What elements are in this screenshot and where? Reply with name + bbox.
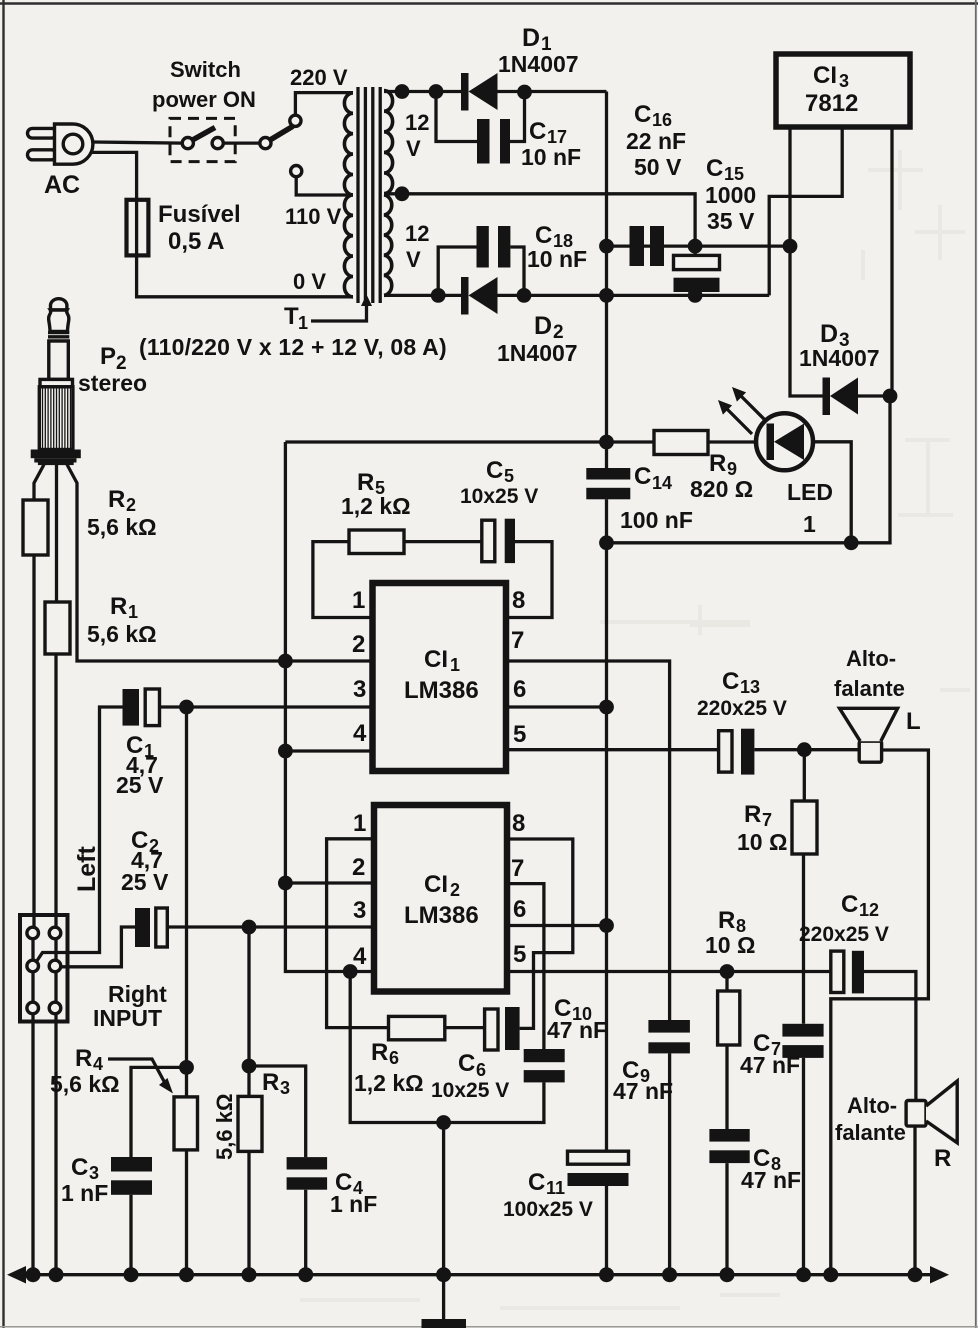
svg-text:C: C <box>528 1169 545 1196</box>
wire CI1 pin6 <box>506 705 607 708</box>
wire plug to switch <box>92 142 182 143</box>
capacitor C18 <box>477 226 511 268</box>
svg-text:47 nF: 47 nF <box>741 1167 801 1193</box>
wire R7 top <box>803 750 806 801</box>
svg-text:12: 12 <box>859 900 879 920</box>
svg-text:C: C <box>458 1050 475 1077</box>
resistor R9 <box>654 431 708 455</box>
svg-text:13: 13 <box>740 677 760 697</box>
svg-text:R: R <box>110 593 127 620</box>
svg-text:R: R <box>371 1039 388 1066</box>
svg-text:L: L <box>906 708 921 735</box>
svg-text:10 Ω: 10 Ω <box>737 829 787 855</box>
ground symbol <box>422 1275 467 1328</box>
capacitor C16 <box>630 226 665 266</box>
wire C3 to ground rail <box>129 1195 132 1275</box>
capacitor C15 electrolytic <box>674 246 720 295</box>
wire speaker L return <box>831 750 929 1275</box>
node C1 out <box>179 700 194 715</box>
wire secondary top to D1 <box>384 90 462 93</box>
svg-text:10x25 V: 10x25 V <box>431 1079 509 1102</box>
svg-text:Alto-: Alto- <box>847 1093 897 1118</box>
svg-text:5,6 kΩ: 5,6 kΩ <box>50 1071 120 1097</box>
node pin2 rail <box>278 654 293 669</box>
wire speaker R to rail <box>913 1126 916 1275</box>
svg-text:6: 6 <box>513 676 526 703</box>
svg-text:5,6 kΩ: 5,6 kΩ <box>212 1093 237 1160</box>
svg-text:D: D <box>534 312 552 340</box>
svg-text:5: 5 <box>513 941 526 968</box>
svg-text:220 V: 220 V <box>290 65 348 90</box>
svg-text:C: C <box>486 457 503 484</box>
wire CI2 pin5 to R8 and C12 <box>507 970 831 973</box>
svg-text:4: 4 <box>353 720 367 747</box>
svg-text:2: 2 <box>352 854 365 881</box>
diode D2 1N4007 <box>461 277 498 315</box>
node R4 top C3 branch <box>179 1060 194 1075</box>
svg-text:1000: 1000 <box>705 182 756 208</box>
capacitor C5 <box>482 519 515 563</box>
resistor R1 <box>45 602 70 654</box>
svg-text:47 nF: 47 nF <box>613 1078 673 1104</box>
switch dashed box <box>170 118 235 161</box>
wire CI2 pin2 <box>285 881 374 884</box>
svg-text:1,2 kΩ: 1,2 kΩ <box>354 1070 424 1096</box>
node rail C7 <box>796 1267 811 1282</box>
svg-text:1N4007: 1N4007 <box>799 345 880 371</box>
wire C10 bottom to pin4 ground loop <box>350 972 544 1123</box>
svg-text:3: 3 <box>839 71 849 91</box>
svg-text:10 Ω: 10 Ω <box>705 932 755 958</box>
wire top rail to R9 <box>285 440 654 443</box>
diode D3 1N4007 <box>823 378 893 416</box>
svg-text:P: P <box>100 343 116 370</box>
scan border bottom <box>0 1326 978 1328</box>
node CI2 pin4 branch <box>343 964 358 979</box>
svg-text:8: 8 <box>512 587 525 614</box>
capacitor C12 <box>831 951 864 994</box>
wire A to CI3 input <box>607 244 791 247</box>
resistor R5 <box>349 530 404 554</box>
svg-text:14: 14 <box>652 473 672 493</box>
wire CI1 pin7 to ground rail <box>506 661 670 1020</box>
node rail speaker L return <box>823 1267 838 1282</box>
svg-text:C: C <box>841 891 858 918</box>
wire R1 to block <box>54 654 57 928</box>
transformer T1 secondary lower 12V winding <box>384 195 392 296</box>
speaker L <box>840 708 898 762</box>
node LED return <box>844 535 859 550</box>
svg-text:2: 2 <box>126 495 136 515</box>
wire R4 to ground rail <box>185 1150 188 1275</box>
switch pole 2 (voltage selector) <box>260 115 302 176</box>
svg-text:8: 8 <box>512 810 525 837</box>
node rail wire B <box>599 288 614 303</box>
svg-text:C: C <box>706 155 723 182</box>
svg-text:Left: Left <box>73 846 101 893</box>
wire R6 to C6 <box>445 1026 485 1029</box>
node rail R4 <box>179 1267 194 1282</box>
svg-text:Switch: Switch <box>170 57 241 82</box>
IC CI1 LM386 <box>373 583 507 771</box>
capacitor C2 <box>135 908 167 947</box>
wire C4 to rail <box>304 1190 307 1275</box>
svg-text:5,6 kΩ: 5,6 kΩ <box>87 514 157 540</box>
svg-text:10 nF: 10 nF <box>527 246 587 272</box>
svg-text:5: 5 <box>513 721 526 748</box>
LED 1 <box>756 413 813 470</box>
svg-text:R: R <box>108 486 125 513</box>
svg-text:power ON: power ON <box>152 87 256 112</box>
svg-text:22 nF: 22 nF <box>626 128 686 154</box>
wire CI1 pin4 <box>285 749 372 752</box>
node D1 anode left <box>429 84 444 99</box>
wire C1 to CI1 pin3 <box>160 705 373 708</box>
svg-text:3: 3 <box>353 897 366 924</box>
node rail speaker R <box>908 1267 923 1282</box>
svg-text:15: 15 <box>724 164 744 184</box>
capacitor C7 <box>782 1024 823 1058</box>
R4 leader arrow <box>108 1059 166 1085</box>
svg-text:D: D <box>522 24 540 52</box>
svg-text:1,2 kΩ: 1,2 kΩ <box>341 493 411 519</box>
svg-text:100x25 V: 100x25 V <box>503 1198 593 1221</box>
wire center tap to C15 node <box>384 194 695 239</box>
svg-text:stereo: stereo <box>78 370 147 396</box>
wire block right column to ground rail <box>54 933 57 1275</box>
wire secondary bottom to D2 <box>384 294 462 297</box>
terminal block <box>20 915 68 1022</box>
svg-text:1N4007: 1N4007 <box>497 340 578 366</box>
CI3 output lead down <box>890 127 893 396</box>
node C15 bottom <box>688 288 703 303</box>
svg-text:R: R <box>744 801 761 828</box>
wire D2 along ground wire B <box>498 294 770 297</box>
wire CI2 pin7 down to C10 <box>507 884 544 1049</box>
wire LED to right rail <box>813 442 851 543</box>
capacitor C10 <box>524 1049 565 1082</box>
wire block left column to ground rail <box>31 933 34 1275</box>
scan border right <box>975 0 977 1328</box>
CI3 input lead down to D3 <box>790 127 823 396</box>
svg-text:10x25 V: 10x25 V <box>460 485 538 508</box>
wire C12 to speaker R <box>864 972 916 1101</box>
svg-text:0 V: 0 V <box>293 269 326 294</box>
fuse Fusivel 0,5A <box>127 200 149 256</box>
svg-text:1: 1 <box>450 655 460 675</box>
svg-text:AC: AC <box>44 171 80 199</box>
R5 C5 gain loop wires <box>313 542 373 618</box>
R6 C6 gain loop: pin1 down to R6 <box>327 839 389 1028</box>
wire R7 down through C7 <box>802 854 805 1024</box>
svg-text:INPUT: INPUT <box>93 1005 162 1031</box>
+12V rail down right side <box>604 396 890 543</box>
capacitor C18 loop wires <box>438 247 476 295</box>
transformer T1 secondary upper 12V winding <box>384 91 393 194</box>
svg-text:1 nF: 1 nF <box>61 1180 108 1206</box>
svg-text:(110/220 V x 12 + 12 V, 08 A): (110/220 V x 12 + 12 V, 08 A) <box>139 334 447 360</box>
wire C4 branch <box>249 1066 306 1157</box>
wire right input to C2 <box>60 927 135 967</box>
capacitor C13 <box>719 729 755 775</box>
capacitor C6 <box>485 1007 520 1050</box>
node R7 branch <box>797 742 812 757</box>
svg-text:CI: CI <box>424 871 448 898</box>
svg-text:Fusível: Fusível <box>158 201 241 228</box>
plug P2 stereo <box>31 299 81 465</box>
wire P2 middle conductor <box>55 465 58 603</box>
svg-text:CI: CI <box>424 646 448 673</box>
wire fuse to transformer 0V <box>137 255 353 296</box>
svg-text:820 Ω: 820 Ω <box>690 476 753 502</box>
capacitor C4 <box>287 1157 328 1190</box>
diode D1 1N4007 <box>461 73 498 111</box>
capacitor C17 loop wires <box>436 92 477 142</box>
svg-text:T: T <box>284 303 299 330</box>
wire C11 to ground rail <box>605 1186 608 1275</box>
node rail C8 <box>720 1267 735 1282</box>
svg-text:V: V <box>406 136 421 161</box>
svg-text:C: C <box>529 118 546 145</box>
node D3 output rail <box>883 389 898 404</box>
svg-text:35 V: 35 V <box>707 208 755 234</box>
svg-text:R: R <box>934 1145 951 1172</box>
svg-text:C: C <box>634 101 651 128</box>
svg-text:5: 5 <box>504 466 514 486</box>
svg-text:R: R <box>75 1045 92 1072</box>
svg-text:0,5 A: 0,5 A <box>168 228 224 255</box>
svg-text:4: 4 <box>353 943 367 970</box>
svg-text:47 nF: 47 nF <box>547 1017 607 1043</box>
wire plug to fuse <box>91 152 137 199</box>
wire C2 node down through R3 to rail <box>247 927 250 1096</box>
wire C2 to CI2 pin3 <box>167 925 374 928</box>
AC plug <box>28 124 93 164</box>
node secondary top <box>395 84 410 99</box>
resistor R8 <box>718 991 740 1045</box>
svg-text:1: 1 <box>298 313 308 333</box>
node wire A at CI3 input lead <box>783 239 798 254</box>
node rail C9 <box>662 1267 677 1282</box>
speaker R <box>906 1081 957 1143</box>
svg-text:LM386: LM386 <box>404 677 479 704</box>
svg-text:220x25 V: 220x25 V <box>697 697 787 720</box>
ground rail <box>16 1273 940 1276</box>
svg-text:C: C <box>722 668 739 695</box>
svg-text:12: 12 <box>405 110 429 135</box>
svg-text:11: 11 <box>546 1178 565 1198</box>
wire R8 to C8 <box>725 1045 728 1129</box>
svg-text:Alto-: Alto- <box>846 646 896 671</box>
svg-text:100 nF: 100 nF <box>620 507 693 533</box>
svg-text:7812: 7812 <box>805 90 858 117</box>
wire R8 top <box>725 972 728 992</box>
svg-text:7: 7 <box>511 855 524 882</box>
wire CI1 pin5 to C13 <box>506 748 719 751</box>
wire D1 to +rail corner <box>498 90 607 93</box>
wire C8 to rail <box>725 1163 728 1275</box>
wire P2 left conductor <box>34 465 44 501</box>
svg-text:6: 6 <box>389 1048 399 1068</box>
svg-text:10 nF: 10 nF <box>521 144 581 170</box>
capacitor C9 <box>648 1020 690 1053</box>
svg-text:7: 7 <box>511 627 524 654</box>
node CI1 pin4 <box>278 744 293 759</box>
wire ground stub to rail <box>442 1123 445 1275</box>
svg-text:5,6 kΩ: 5,6 kΩ <box>87 621 157 647</box>
svg-text:7: 7 <box>762 810 772 830</box>
node rail ground stub <box>436 1267 451 1282</box>
svg-text:1: 1 <box>803 511 816 537</box>
node C4 branch <box>242 1059 257 1074</box>
svg-text:CI: CI <box>813 62 837 89</box>
IC CI2 LM386 <box>374 805 507 992</box>
svg-text:1: 1 <box>352 587 365 614</box>
svg-text:D: D <box>820 320 838 348</box>
node rail wire A <box>599 239 614 254</box>
svg-text:16: 16 <box>652 110 672 130</box>
node C15 top <box>688 239 703 254</box>
node center tap <box>395 186 410 201</box>
IC CI3 7812 <box>776 54 910 127</box>
svg-text:falante: falante <box>834 676 905 701</box>
node C2 out R3 branch <box>242 920 257 935</box>
svg-text:C: C <box>535 222 552 249</box>
svg-text:6: 6 <box>513 896 526 923</box>
node D1 output <box>517 85 532 100</box>
scan border left <box>2 0 4 1328</box>
node CI1 pin6 +12V <box>599 700 614 715</box>
svg-text:falante: falante <box>835 1120 906 1145</box>
LED arrows <box>718 387 766 434</box>
ground feed rail x=285 <box>285 442 374 972</box>
wire R9 to LED <box>708 440 757 443</box>
resistor R2 <box>23 500 48 555</box>
node C14 top <box>599 435 614 450</box>
svg-text:47 nF: 47 nF <box>740 1052 800 1078</box>
wire CI2 pin6 <box>507 924 607 927</box>
wire 110V tap <box>296 177 353 195</box>
vertical from C1 node down to R4 <box>185 707 188 1097</box>
node C18 left <box>431 288 446 303</box>
svg-text:C: C <box>71 1154 88 1181</box>
wire P2 right conductor to CI1 pin2 <box>67 465 373 662</box>
svg-text:V: V <box>406 247 421 272</box>
wire R2 to block <box>32 555 35 928</box>
scan border top <box>0 2 978 5</box>
node R8 branch <box>720 964 735 979</box>
svg-text:C: C <box>634 463 651 490</box>
svg-text:50 V: 50 V <box>634 154 682 180</box>
node CI2 pin2 <box>278 876 293 891</box>
+raw rail from D1 corner down <box>605 92 608 470</box>
capacitor C11 electrolytic <box>568 1151 629 1186</box>
svg-text:Right: Right <box>108 981 167 1007</box>
svg-text:R: R <box>357 469 374 496</box>
node ground stub <box>436 1115 451 1130</box>
wire left input to C1 <box>36 707 123 963</box>
svg-text:LED: LED <box>787 479 833 505</box>
CI3 ground lead to wire B <box>769 127 842 295</box>
capacitor C1 <box>123 689 160 726</box>
switch pole 1 <box>182 128 223 149</box>
node rail R3 <box>242 1267 257 1282</box>
svg-text:1: 1 <box>128 602 138 622</box>
node rail 33 <box>26 1267 41 1282</box>
transformer T1 core <box>358 87 380 303</box>
wire C9 to rail <box>668 1053 671 1274</box>
wire C13 to speaker L <box>754 748 859 751</box>
svg-text:R: R <box>262 1069 279 1096</box>
svg-text:R: R <box>718 907 735 934</box>
+12V rail C14 to C11 <box>605 543 608 1151</box>
node CI2 pin6 +12V <box>599 918 614 933</box>
svg-text:3: 3 <box>280 1078 290 1098</box>
svg-text:25 V: 25 V <box>116 772 164 798</box>
capacitor C3 <box>111 1157 152 1195</box>
node rail C11 <box>599 1267 614 1282</box>
svg-text:2: 2 <box>352 631 365 658</box>
node D2 output <box>517 288 532 303</box>
svg-text:6: 6 <box>476 1060 486 1080</box>
svg-text:1: 1 <box>353 810 366 837</box>
svg-text:LM386: LM386 <box>404 902 479 929</box>
capacitor C14 <box>586 468 630 543</box>
svg-text:110 V: 110 V <box>285 204 342 229</box>
resistor R6 <box>389 1016 445 1039</box>
svg-text:2: 2 <box>450 880 460 900</box>
wire C7 to rail <box>802 1058 805 1275</box>
capacitor C8 <box>709 1129 749 1163</box>
wire C3 branch <box>131 1067 187 1157</box>
svg-text:12: 12 <box>405 221 429 246</box>
resistor R3 <box>238 1096 262 1151</box>
svg-text:25 V: 25 V <box>121 869 169 895</box>
svg-text:1N4007: 1N4007 <box>498 51 579 77</box>
rail left arrowhead <box>7 1266 26 1284</box>
wire 220V tap <box>295 93 353 116</box>
svg-text:220x25 V: 220x25 V <box>799 923 889 946</box>
svg-text:R: R <box>709 450 726 477</box>
resistor R7 <box>792 801 817 854</box>
wire C6 up to CI2 pin8 <box>507 839 573 1028</box>
transformer T1 primary winding <box>344 93 353 297</box>
node C14 bottom <box>599 535 614 550</box>
T1 pointer arrow <box>311 305 367 321</box>
rail right arrowhead <box>930 1266 949 1284</box>
resistor R4 <box>174 1097 198 1150</box>
node rail C4 <box>298 1267 313 1282</box>
svg-text:3: 3 <box>353 676 366 703</box>
node rail 56 <box>49 1267 64 1282</box>
node rail C3 <box>124 1267 139 1282</box>
svg-text:1 nF: 1 nF <box>330 1191 377 1217</box>
wire between switch poles <box>223 141 259 144</box>
capacitor C17 <box>477 119 510 164</box>
